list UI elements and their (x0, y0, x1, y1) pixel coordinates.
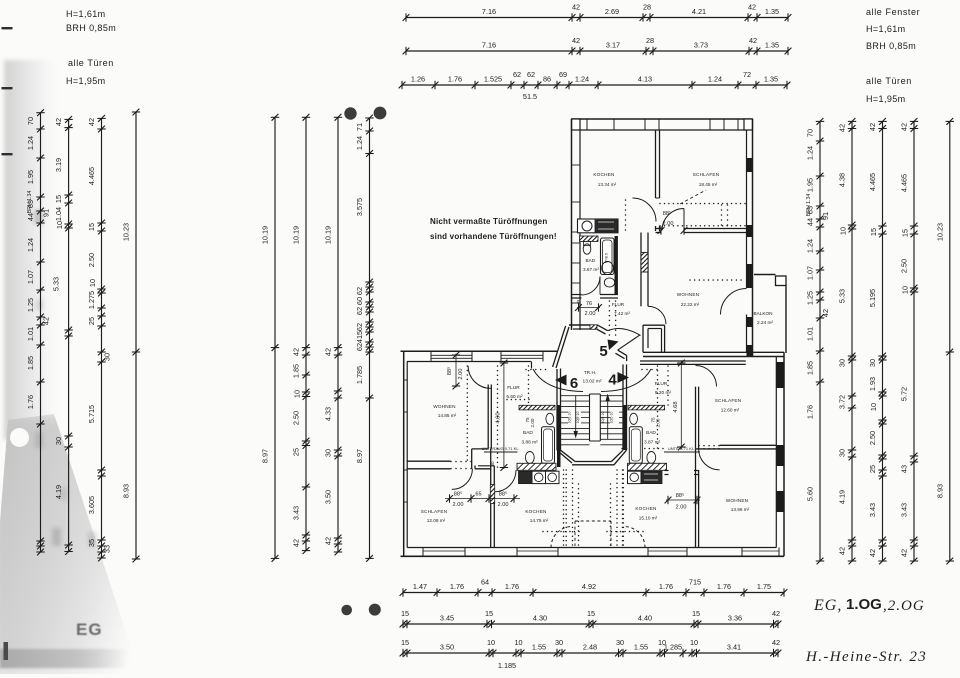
svg-text:88⁵: 88⁵ (676, 492, 685, 499)
svg-text:10|5·10: 10|5·10 (568, 412, 572, 424)
svg-text:4.30: 4.30 (533, 614, 547, 623)
svg-text:1.01: 1.01 (26, 327, 35, 341)
door arc KOCHEN 5 (633, 198, 657, 222)
svg-text:91: 91 (821, 212, 830, 220)
svg-text:10: 10 (690, 638, 698, 647)
triangle 6 (555, 375, 567, 386)
svg-text:30: 30 (616, 638, 624, 647)
left dimension chain 4 (122, 109, 141, 563)
svg-text:42: 42 (838, 124, 847, 132)
svg-text:22.22 m²: 22.22 m² (681, 302, 700, 307)
svg-text:1.185: 1.185 (498, 661, 516, 670)
svg-text:62: 62 (355, 323, 364, 331)
punch dot top right (374, 107, 387, 120)
door arc WOHNEN 5 (648, 306, 666, 324)
svg-text:1.76: 1.76 (717, 582, 731, 591)
svg-text:3.43: 3.43 (292, 506, 301, 520)
note Tueroeffnungen (430, 217, 557, 241)
door arc unit 5 entrance (608, 328, 641, 335)
svg-text:1.35: 1.35 (765, 41, 779, 50)
unit 4 flur top wall (640, 360, 746, 362)
svg-text:2.00: 2.00 (585, 311, 596, 317)
svg-text:30: 30 (555, 638, 563, 647)
svg-text:1.24: 1.24 (355, 136, 364, 150)
dotted lines SCHLAFEN 5 (659, 203, 661, 205)
svg-text:8.93: 8.93 (122, 484, 131, 498)
svg-text:1.24: 1.24 (708, 75, 722, 84)
svg-text:TR.H.: TR.H. (584, 370, 597, 376)
stair arrows (575, 396, 577, 432)
svg-text:4.465: 4.465 (868, 173, 877, 191)
svg-text:1.76: 1.76 (806, 405, 815, 419)
svg-text:H=1,95m: H=1,95m (866, 94, 906, 104)
svg-text:BAD: BAD (646, 430, 656, 436)
svg-text:10|5·10: 10|5·10 (610, 412, 614, 424)
stair stringer (589, 394, 591, 441)
svg-text:3.19: 3.19 (54, 158, 63, 172)
svg-text:4.19: 4.19 (838, 490, 847, 504)
svg-text:15: 15 (869, 228, 878, 236)
svg-text:1.24: 1.24 (806, 146, 815, 160)
wall KOCHEN 4 north stubs (665, 470, 669, 472)
svg-text:1.85: 1.85 (806, 361, 815, 375)
svg-text:64: 64 (481, 578, 489, 587)
svg-text:EG,: EG, (813, 597, 842, 614)
svg-text:15: 15 (587, 609, 595, 618)
svg-text:3.50: 3.50 (440, 643, 454, 652)
scan smudges (34, 210, 96, 546)
svg-text:30: 30 (838, 449, 847, 457)
svg-text:42: 42 (54, 118, 63, 126)
kitchen counter 4 (628, 471, 642, 483)
door dim SCHLAFEN 5 (660, 226, 662, 234)
svg-text:4.40: 4.40 (638, 614, 652, 623)
svg-text:14.85 m²: 14.85 m² (438, 413, 457, 418)
svg-text:5.33: 5.33 (52, 277, 61, 291)
dotted door gap WOHNEN/SCHLAFEN 6 (450, 461, 452, 463)
svg-text:1.24: 1.24 (26, 238, 35, 252)
svg-text:5: 5 (599, 343, 607, 360)
svg-text:10: 10 (88, 279, 97, 287)
punch dot top left (344, 107, 356, 119)
svg-text:15: 15 (401, 609, 409, 618)
balcony walls (754, 274, 776, 276)
svg-text:42: 42 (749, 36, 757, 45)
svg-text:7.16: 7.16 (482, 7, 496, 16)
svg-text:1.76: 1.76 (505, 582, 519, 591)
svg-text:25: 25 (868, 465, 877, 473)
triangle 4 (618, 372, 630, 383)
beam line UNTERZUG 4 (664, 451, 700, 453)
svg-text:1.785: 1.785 (355, 366, 364, 384)
door arc KOCHEN 6 (495, 470, 517, 492)
bathtub unit 5 (601, 238, 615, 275)
svg-text:42: 42 (292, 348, 301, 356)
stair tower angled west wall (556, 327, 569, 368)
edge registration marks top left (2, 27, 13, 660)
door arc SCHLAFEN 4 (696, 366, 717, 387)
right dimension chain 5 (935, 118, 954, 564)
bath unit 5 east wall black (615, 236, 618, 294)
svg-text:10: 10 (55, 221, 64, 229)
left dimension chain 2 (52, 116, 73, 555)
door arc SCHLAFEN 6 (452, 469, 473, 490)
svg-text:86: 86 (543, 75, 551, 84)
dotted path FLUR 6 vertical (497, 365, 499, 367)
svg-text:BRH 1.34: BRH 1.34 (806, 194, 812, 217)
stair treads (561, 395, 590, 397)
door arc balcony (721, 289, 747, 315)
scan gray band left (4, 60, 56, 440)
svg-text:10: 10 (514, 638, 522, 647)
svg-text:12.08 m²: 12.08 m² (427, 518, 446, 523)
dashed arc KOCHEN 4 (624, 527, 645, 548)
dim 4.68 FLUR 4 (680, 361, 682, 449)
upper block bottom wall over lower block (643, 351, 755, 353)
svg-text:3.73: 3.73 (694, 41, 708, 50)
svg-text:5.715: 5.715 (87, 405, 96, 423)
svg-text:1.525: 1.525 (484, 75, 502, 84)
svg-text:1.47: 1.47 (413, 582, 427, 591)
bottom dimension chain 2 (400, 609, 782, 628)
svg-text:5.195: 5.195 (868, 289, 877, 307)
svg-text:3.605: 3.605 (87, 496, 96, 514)
bath 6 fixtures (542, 427, 555, 464)
toilet unit 5 (583, 244, 591, 254)
scan dark strip bottom-left (0, 649, 128, 668)
svg-text:44: 44 (806, 218, 815, 226)
svg-text:13.34 m²: 13.34 m² (598, 182, 617, 187)
dim 4.60 FLUR 6 (503, 362, 505, 469)
punch dot bottom right (369, 604, 381, 616)
svg-text:1.OG: 1.OG (846, 596, 882, 613)
bath 4 fixtures (629, 427, 642, 464)
bottom dimension chain 1 (400, 578, 788, 597)
svg-text:35: 35 (87, 539, 96, 547)
right dimension chain 4 (900, 118, 919, 564)
svg-text:FLUR: FLUR (612, 302, 625, 307)
svg-text:25: 25 (292, 448, 301, 456)
triangle 5 (608, 340, 619, 351)
svg-text:3.36: 3.36 (728, 614, 742, 623)
svg-text:62: 62 (355, 343, 364, 351)
dashed pointer SCHLAFEN 5 (680, 190, 706, 204)
svg-text:1.24: 1.24 (806, 239, 815, 253)
svg-text:1.93: 1.93 (868, 377, 877, 391)
svg-text:,2.OG: ,2.OG (883, 598, 925, 614)
stair tower right angled wall (618, 350, 627, 355)
svg-text:65: 65 (475, 492, 481, 498)
svg-text:4.465: 4.465 (900, 174, 909, 192)
divider step walls (471, 449, 473, 469)
svg-text:1.275: 1.275 (87, 291, 96, 309)
svg-text:1.76: 1.76 (26, 395, 35, 409)
scan gray wedge bottom-left (0, 412, 143, 674)
svg-text:71: 71 (355, 123, 364, 131)
svg-text:BAD: BAD (586, 258, 596, 263)
dotted rows FLUR 6 (525, 369, 527, 371)
duct box walls right of tower (643, 324, 665, 326)
lower block outer walls (401, 351, 785, 556)
punch hole white (10, 428, 29, 447)
svg-text:UNTE B.71 KL: UNTE B.71 KL (668, 446, 695, 451)
svg-text:1.76: 1.76 (450, 582, 464, 591)
svg-text:5.72: 5.72 (900, 387, 909, 401)
svg-text:12.60 m²: 12.60 m² (721, 408, 740, 413)
svg-text:15.10 m²: 15.10 m² (639, 516, 658, 521)
svg-text:1.75: 1.75 (757, 582, 771, 591)
right dimension chain 3 (868, 118, 887, 564)
stair bottom bay (561, 450, 576, 461)
svg-text:2.00: 2.00 (458, 369, 464, 380)
divider wall WOHNEN/SCHLAFEN 6 (407, 460, 451, 462)
middle dimension chain 1 (261, 114, 280, 562)
svg-text:62: 62 (355, 307, 364, 315)
svg-text:42: 42 (772, 638, 780, 647)
svg-text:3.41: 3.41 (727, 643, 741, 652)
svg-text:8.97: 8.97 (355, 449, 364, 463)
svg-text:alle Türen: alle Türen (68, 58, 114, 68)
svg-text:42: 42 (838, 547, 847, 555)
svg-text:H=1,61m: H=1,61m (866, 24, 906, 34)
svg-text:10: 10 (839, 227, 848, 235)
svg-text:Nicht vermaßte Türöffnungen: Nicht vermaßte Türöffnungen (430, 217, 547, 226)
right wall solid piers lower block (776, 362, 784, 388)
svg-text:3.45: 3.45 (440, 614, 454, 623)
svg-text:1.35: 1.35 (765, 7, 779, 16)
svg-text:42: 42 (772, 609, 780, 618)
svg-text:WOHNEN: WOHNEN (433, 404, 456, 409)
top dimension chain 2 (403, 36, 792, 55)
svg-text:3.87 m²: 3.87 m² (644, 440, 661, 446)
svg-text:4: 4 (608, 372, 617, 389)
svg-text:3.575: 3.575 (355, 198, 364, 216)
svg-text:FLUR: FLUR (507, 385, 520, 391)
svg-text:KOCHEN: KOCHEN (635, 506, 656, 511)
svg-text:sind vorhandene Türöffnungen!: sind vorhandene Türöffnungen! (430, 232, 557, 241)
svg-text:1.25: 1.25 (26, 298, 35, 312)
svg-text:30: 30 (54, 437, 63, 445)
middle dimension chain 2 (292, 114, 311, 554)
svg-text:1.95: 1.95 (806, 178, 815, 192)
entrance 5 door jamb diagonal (597, 325, 608, 331)
svg-text:2.00: 2.00 (676, 505, 687, 511)
svg-text:4.19: 4.19 (54, 485, 63, 499)
svg-text:15: 15 (692, 609, 700, 618)
svg-text:15: 15 (901, 229, 910, 237)
hatch block stair tower top (590, 325, 597, 330)
svg-text:2.00: 2.00 (498, 502, 509, 508)
svg-text:2.50: 2.50 (292, 411, 301, 425)
svg-text:42: 42 (292, 539, 301, 547)
kitchen counter 6 (519, 471, 533, 483)
dotted lines FLUR 4 (657, 365, 659, 367)
svg-text:4.13: 4.13 (638, 75, 652, 84)
svg-text:6: 6 (570, 375, 578, 392)
svg-text:1.04: 1.04 (54, 207, 63, 221)
svg-text:0: 0 (577, 299, 580, 304)
svg-text:10.23: 10.23 (122, 223, 131, 241)
svg-text:1.07: 1.07 (26, 270, 35, 284)
bath unit 5 bottom wall (572, 294, 582, 296)
svg-text:2.69: 2.69 (605, 7, 619, 16)
svg-text:2.50: 2.50 (868, 431, 877, 445)
svg-text:15: 15 (485, 609, 493, 618)
hatched wall below bath 4 (628, 463, 667, 470)
hall arcs apartment doors 6 and 4 (533, 369, 583, 392)
svg-text:R=B.5: R=B.5 (604, 253, 608, 263)
svg-text:88⁵: 88⁵ (663, 210, 672, 217)
svg-text:33: 33 (103, 545, 112, 553)
bath 6 top wall hatched (519, 405, 555, 410)
svg-text:91: 91 (42, 209, 51, 217)
dotted line WOHNEN 5 (689, 279, 691, 281)
dashed arc KOCHEN 6 (551, 527, 572, 548)
svg-text:42: 42 (87, 118, 96, 126)
svg-text:1.76: 1.76 (448, 75, 462, 84)
wall FLUR 5 / WOHNEN 5 (640, 233, 642, 307)
svg-text:2.48: 2.48 (583, 643, 597, 652)
door arc BAD 5 (582, 277, 601, 296)
left dimension chain 3 (87, 115, 112, 561)
kitchen 6 dotted lines (563, 469, 565, 471)
svg-text:10: 10 (293, 390, 302, 398)
svg-text:1.55: 1.55 (532, 643, 546, 652)
svg-text:70: 70 (806, 129, 815, 137)
svg-text:1.24: 1.24 (26, 136, 35, 150)
svg-text:25: 25 (87, 317, 96, 325)
middle dimension chain 4 (355, 115, 374, 562)
wall between KOCHEN and SCHLAFEN (655, 130, 657, 198)
svg-text:WOHNEN: WOHNEN (677, 292, 700, 297)
svg-text:4.33: 4.33 (324, 407, 333, 421)
svg-text:18.45 m²: 18.45 m² (699, 182, 718, 187)
door dim FLUR 5 (577, 307, 600, 309)
svg-text:8.97: 8.97 (261, 449, 270, 463)
svg-text:42: 42 (572, 36, 580, 45)
entrance vestibule dashed (565, 469, 567, 471)
svg-text:42: 42 (900, 549, 909, 557)
right wall solid piers (747, 158, 753, 172)
svg-text:30: 30 (868, 359, 877, 367)
svg-text:51.5: 51.5 (523, 92, 537, 101)
svg-text:42: 42 (868, 549, 877, 557)
svg-text:42: 42 (821, 309, 830, 317)
svg-text:10.23: 10.23 (935, 223, 944, 241)
svg-text:4.21: 4.21 (692, 7, 706, 16)
door arc SCHLAFEN 5 (662, 209, 684, 231)
wall KOCHEN 6 west (490, 449, 492, 548)
beam line UNTERZUG 6 (484, 451, 518, 453)
svg-text:H=1,95m: H=1,95m (66, 76, 106, 86)
svg-text:SCHLAFEN: SCHLAFEN (421, 509, 448, 514)
svg-text:FLUR: FLUR (655, 381, 668, 387)
svg-text:H.-Heine-Str. 23: H.-Heine-Str. 23 (805, 649, 927, 665)
svg-text:30: 30 (838, 359, 847, 367)
svg-text:2.00: 2.00 (656, 418, 661, 427)
left dimension chain 1 (26, 109, 51, 555)
svg-text:2.24 m²: 2.24 m² (757, 320, 773, 325)
svg-text:30: 30 (103, 353, 112, 361)
svg-text:28: 28 (646, 36, 654, 45)
top dimension chain 1 (403, 3, 792, 22)
right dimension chain 2 (838, 118, 857, 564)
svg-text:4.465: 4.465 (87, 167, 96, 185)
svg-text:KOCHEN: KOCHEN (525, 509, 546, 514)
kitchen counter unit 5 (578, 219, 619, 233)
svg-text:KOCHEN: KOCHEN (593, 172, 614, 177)
svg-text:SCHLAFEN: SCHLAFEN (715, 398, 742, 403)
divider wall SCHLAFEN/WOHNEN 4 (720, 444, 777, 446)
svg-text:1.07: 1.07 (806, 266, 815, 280)
svg-text:42: 42 (868, 123, 877, 131)
svg-text:2.50: 2.50 (900, 259, 909, 273)
svg-text:69: 69 (559, 70, 567, 79)
svg-text:1.01: 1.01 (806, 327, 815, 341)
svg-text:3.17: 3.17 (606, 41, 620, 50)
dotted door gap WOHNEN 4 (698, 445, 700, 447)
upper block outer walls (572, 119, 753, 357)
svg-text:42: 42 (572, 3, 580, 12)
svg-text:BALKON: BALKON (753, 311, 772, 316)
svg-text:10|5·10: 10|5·10 (576, 412, 580, 424)
svg-text:88⁵: 88⁵ (446, 367, 453, 376)
svg-text:42: 42 (42, 317, 51, 325)
window dim WOHNEN 6 (455, 354, 457, 388)
svg-text:10|5·10: 10|5·10 (601, 412, 605, 424)
svg-text:1.85: 1.85 (292, 364, 301, 378)
svg-text:42: 42 (900, 123, 909, 131)
svg-text:5.33: 5.33 (838, 289, 847, 303)
svg-text:4.92: 4.92 (582, 582, 596, 591)
stair hall west wall (531, 362, 533, 369)
door dims SCHLAFEN 6 (445, 498, 520, 500)
svg-text:13.96 m²: 13.96 m² (731, 507, 750, 512)
svg-text:13.02 m²: 13.02 m² (583, 379, 602, 385)
svg-text:2.00: 2.00 (530, 418, 535, 427)
svg-text:415: 415 (355, 331, 364, 343)
chimney hatch KOCHEN 6 wall (490, 485, 494, 504)
hatched wall below bath 6 (517, 463, 556, 470)
svg-text:3.43: 3.43 (868, 503, 877, 517)
svg-text:2.50: 2.50 (87, 253, 96, 267)
door dim KOCHEN 4 (666, 499, 700, 501)
svg-text:1.26: 1.26 (411, 75, 425, 84)
svg-text:62: 62 (355, 287, 364, 295)
svg-text:10.19: 10.19 (292, 226, 301, 244)
svg-text:88⁵: 88⁵ (454, 491, 463, 498)
wall between SCHLAFEN and WOHNEN 5 (656, 228, 662, 230)
svg-text:60: 60 (355, 297, 364, 305)
svg-text:3.50: 3.50 (324, 490, 333, 504)
svg-text:42: 42 (748, 3, 756, 12)
svg-text:715: 715 (689, 578, 701, 587)
svg-text:1.76: 1.76 (659, 582, 673, 591)
svg-text:76: 76 (586, 301, 592, 307)
middle dimension chain 3 (324, 114, 343, 556)
svg-text:BRH 1.34: BRH 1.34 (27, 191, 33, 214)
svg-text:42: 42 (324, 348, 333, 356)
svg-text:1.85: 1.85 (26, 356, 35, 370)
svg-text:SCHLAFEN: SCHLAFEN (693, 172, 720, 177)
door leaf unit 5 entrance (618, 335, 640, 350)
svg-text:1.55: 1.55 (634, 643, 648, 652)
dashed pointer KOCHEN 5 dots (625, 199, 627, 201)
svg-text:4.68: 4.68 (673, 401, 679, 412)
svg-text:1.95: 1.95 (26, 170, 35, 184)
EG stamp (76, 620, 103, 640)
kitchen 4 dotted lines (622, 469, 624, 471)
